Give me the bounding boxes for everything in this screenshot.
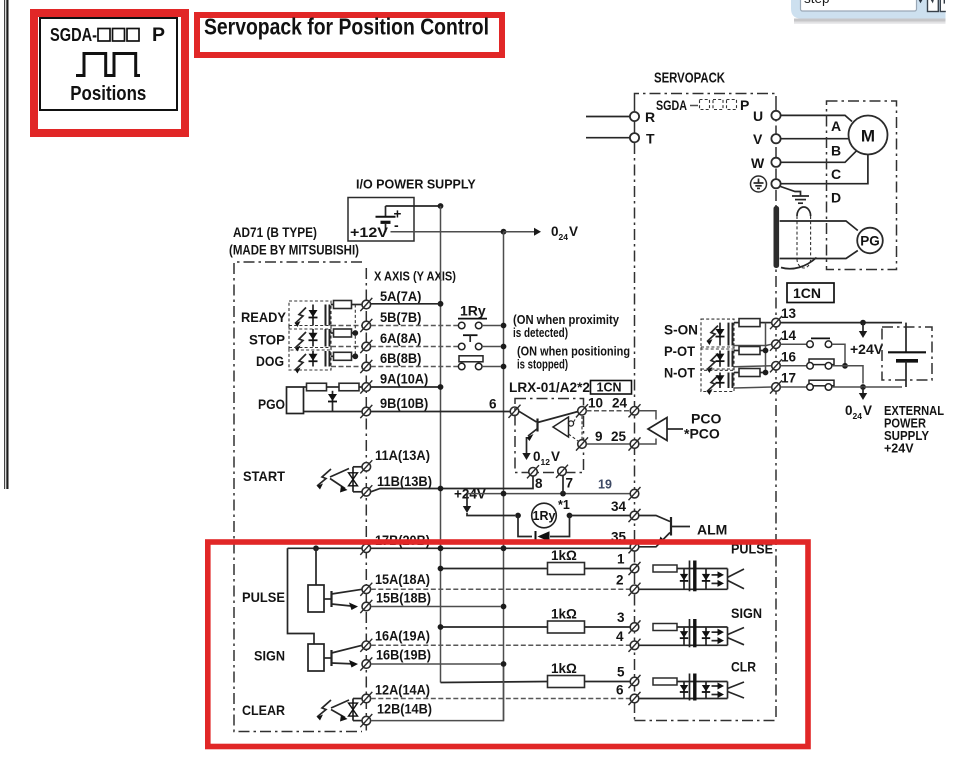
svg-text:X AXIS (Y AXIS): X AXIS (Y AXIS) xyxy=(374,270,456,284)
wire 16A to pin4 xyxy=(371,644,630,646)
toolbar shadow xyxy=(794,19,946,22)
svg-text:LRX-01/A2*2: LRX-01/A2*2 xyxy=(509,380,590,395)
svg-text:Positions: Positions xyxy=(70,83,146,105)
wire S-ON anode xyxy=(734,322,739,324)
svg-text:*1: *1 xyxy=(558,498,570,512)
svg-text:CLEAR: CLEAR xyxy=(242,702,285,718)
svg-text:25: 25 xyxy=(611,429,627,444)
svg-text:START: START xyxy=(243,468,285,484)
terminal T xyxy=(630,133,639,142)
wire N-OT anode xyxy=(734,372,739,374)
svg-text:+24V: +24V xyxy=(850,341,884,357)
svg-text:6B(8B): 6B(8B) xyxy=(380,351,421,366)
svg-text:SERVOPACK: SERVOPACK xyxy=(654,70,725,87)
svg-text:5A(7A): 5A(7A) xyxy=(380,289,421,304)
svg-text:9A(10A): 9A(10A) xyxy=(380,372,428,387)
svg-text:1kΩ: 1kΩ xyxy=(551,548,577,563)
wire V to motor phase B xyxy=(781,138,849,140)
terminal 16A xyxy=(360,639,372,652)
svg-text:T: T xyxy=(646,131,655,147)
svg-text:V: V xyxy=(753,131,763,147)
svg-text:0: 0 xyxy=(845,403,853,418)
terminal 1CN-17 xyxy=(770,380,782,393)
junction 1Ry left xyxy=(515,513,521,519)
wire P-OT cathode to 16 xyxy=(734,366,772,367)
wire R3 to pin3 xyxy=(585,626,631,628)
white page area right of toolbar xyxy=(946,0,968,26)
terminal 5B(7B) xyxy=(360,319,372,332)
combo box "step" xyxy=(801,0,917,11)
wire CLEAR bottom stub xyxy=(353,720,362,722)
svg-text:S-ON: S-ON xyxy=(664,322,698,338)
wire STOP cathode to 6A xyxy=(331,346,362,348)
wire supply to PULSE driver xyxy=(315,548,317,585)
wire DOG cathode to 6B xyxy=(331,366,362,368)
svg-text:16B(19B): 16B(19B) xyxy=(376,648,431,663)
junction rail STOP xyxy=(352,330,358,336)
switch positioning (6B row) xyxy=(371,356,501,370)
resistor S-ON xyxy=(739,319,760,327)
wire 12A to pin6 xyxy=(371,698,630,700)
CLEAR emitter lines xyxy=(331,700,349,722)
svg-text:is stopped): is stopped) xyxy=(517,358,568,372)
wire bus to R5 xyxy=(441,682,548,683)
wire 0V out xyxy=(391,231,504,233)
svg-text:24: 24 xyxy=(559,232,569,242)
wire PGO top xyxy=(304,386,307,388)
svg-text:R: R xyxy=(645,109,655,125)
earth ground symbol below PE xyxy=(781,187,810,204)
wire 15B to 0V bus xyxy=(371,606,501,608)
terminal 1CN-6 xyxy=(629,692,641,705)
wire to 0-24V arrow xyxy=(504,231,535,233)
junction 17B 0Vbus xyxy=(501,545,507,551)
svg-text:3: 3 xyxy=(617,610,625,625)
wire READY to 5A xyxy=(352,304,362,306)
resistor READY xyxy=(334,301,352,309)
wire 11B to LRX 8 xyxy=(371,476,533,492)
svg-text:PCO: PCO xyxy=(691,411,721,427)
svg-text:ALM: ALM xyxy=(697,522,727,538)
junction row3 bus xyxy=(438,624,444,630)
svg-text:SIGN: SIGN xyxy=(254,648,285,664)
opto-coupler DOG xyxy=(289,348,331,374)
junction 15B 0Vbus xyxy=(501,604,507,610)
1CN tag box (connector) xyxy=(787,283,834,303)
terminal LRX 8 xyxy=(527,465,539,478)
wire CLEAR top stub xyxy=(353,698,362,700)
cable shield bar xyxy=(774,206,780,268)
svg-text:M: M xyxy=(861,127,875,146)
junction 6B to 0V bus xyxy=(501,364,507,370)
wire DOG to rail xyxy=(352,355,356,357)
wire 0V vertical bus x=503 xyxy=(503,232,505,721)
svg-text:READY: READY xyxy=(241,309,287,325)
svg-text:13: 13 xyxy=(781,306,797,321)
svg-text:4: 4 xyxy=(616,629,624,644)
svg-text:11B(13B): 11B(13B) xyxy=(377,474,432,489)
wire DOG anode xyxy=(331,355,334,357)
junction +24V ext xyxy=(860,320,866,326)
svg-text:1CN: 1CN xyxy=(793,285,821,301)
terminal 17B(20B) xyxy=(360,542,372,555)
flyback diode loop xyxy=(518,516,570,543)
terminal V xyxy=(771,134,780,143)
arrow +24V ext xyxy=(862,323,864,331)
wire bus to R1 xyxy=(441,568,548,570)
terminal 1CN-2 xyxy=(629,583,641,596)
terminal 1CN-1 xyxy=(629,562,641,575)
svg-text:C: C xyxy=(831,166,841,182)
terminal U xyxy=(771,111,780,120)
resistor 1kOhm row3 xyxy=(548,621,585,633)
toolbar panel background xyxy=(791,0,946,19)
terminal 9B(10B) xyxy=(360,405,372,418)
svg-text:(ON when proximity: (ON when proximity xyxy=(513,313,619,327)
arrowhead +24V feed xyxy=(463,506,471,513)
wire READY cathode to 5B xyxy=(331,325,362,327)
junction +24V 0V-bus xyxy=(501,491,507,497)
wire N-OT cathode to 17 xyxy=(734,387,772,388)
resistor STOP xyxy=(334,329,352,337)
terminal 11B xyxy=(360,485,372,498)
svg-text:PULSE: PULSE xyxy=(242,589,285,605)
terminal R xyxy=(630,112,639,121)
resistor DOG xyxy=(334,352,352,360)
wire N-OT to rail xyxy=(760,372,766,374)
svg-text:(ON when positioning: (ON when positioning xyxy=(517,345,630,359)
svg-text:1: 1 xyxy=(617,552,625,567)
junction 17B +12bus xyxy=(438,545,444,551)
terminal 1CN-5 xyxy=(629,675,641,688)
svg-text:12B(14B): 12B(14B) xyxy=(377,702,432,717)
svg-text:5: 5 xyxy=(617,665,625,680)
svg-text:9: 9 xyxy=(595,429,603,444)
junction +12V bus top xyxy=(438,203,444,209)
wire 17B to pin 35 xyxy=(371,547,630,549)
svg-text:P: P xyxy=(152,24,165,46)
svg-text:(MADE BY MITSUBISHI): (MADE BY MITSUBISHI) xyxy=(229,243,359,258)
svg-text:16: 16 xyxy=(781,350,797,365)
wire 10 to 24 xyxy=(587,410,631,412)
svg-text:+12V: +12V xyxy=(350,224,389,240)
junction row1 bus xyxy=(438,566,444,572)
logo pulse waveform xyxy=(76,54,140,76)
svg-text:AD71 (B TYPE): AD71 (B TYPE) xyxy=(233,225,317,240)
arrowhead 0-24V ext xyxy=(859,393,867,400)
terminal W xyxy=(771,158,780,167)
svg-text:2: 2 xyxy=(616,573,624,588)
svg-text:34: 34 xyxy=(611,499,627,514)
svg-text:B: B xyxy=(831,143,841,159)
svg-text:1CN: 1CN xyxy=(597,381,622,395)
terminal LRX 9 xyxy=(576,437,588,450)
wire READY anode xyxy=(331,304,334,306)
svg-text:V: V xyxy=(863,403,872,418)
wire anode rail (servo inputs) xyxy=(765,323,767,373)
svg-text:1Ry: 1Ry xyxy=(533,509,556,523)
I/O power supply box xyxy=(348,198,414,242)
svg-text:V: V xyxy=(551,449,560,464)
svg-text:V: V xyxy=(569,224,578,239)
terminal 1CN-16 xyxy=(770,359,782,372)
svg-text:DOG: DOG xyxy=(256,353,284,369)
servopack enclosure outline xyxy=(635,94,777,721)
wire START bottom stub xyxy=(353,491,362,493)
svg-text:P-OT: P-OT xyxy=(664,343,695,359)
svg-text:CLR: CLR xyxy=(731,659,756,675)
svg-text:Servopack for Position Control: Servopack for Position Control xyxy=(204,14,489,40)
transistor LRX input xyxy=(519,411,578,441)
wire PG signal bottom xyxy=(780,251,858,259)
arrowhead 0-12V xyxy=(522,453,530,460)
wire 15A to pin2 xyxy=(371,588,630,590)
AD71 terminal strip line xyxy=(365,268,367,732)
svg-text:PG: PG xyxy=(860,234,880,249)
junction PULSE drv supply xyxy=(313,545,319,551)
svg-text:9B(10B): 9B(10B) xyxy=(380,396,428,411)
svg-text:6: 6 xyxy=(616,683,624,698)
wire P-OT to rail xyxy=(760,350,766,352)
junction rail DOG xyxy=(352,353,358,359)
terminal LRX 10 xyxy=(576,404,588,417)
switch P-OT (16) xyxy=(781,359,864,384)
resistor PGO 2 xyxy=(339,383,359,391)
wire to 1Ry coil xyxy=(467,513,515,516)
terminal 1CN-24 xyxy=(629,404,641,417)
wire STOP anode xyxy=(331,332,334,334)
opto-coupler P-OT xyxy=(701,347,734,373)
junction 5A to +12V bus xyxy=(438,301,444,307)
wire START top stub xyxy=(353,466,362,468)
battery +12V xyxy=(376,206,402,233)
terminal 9A(10A) xyxy=(360,380,372,393)
resistor PGO 1 xyxy=(307,383,327,391)
junction +24V pin7 xyxy=(560,491,566,497)
terminal 11A xyxy=(360,460,372,473)
switch proximity (6A row) xyxy=(371,335,501,350)
svg-text:*PCO: *PCO xyxy=(684,426,720,442)
wire S-ON to 13 xyxy=(760,322,772,324)
junction sw16-17 xyxy=(860,384,866,390)
svg-text:14: 14 xyxy=(781,328,797,343)
svg-text:W: W xyxy=(751,155,765,171)
switch S-ON (14) xyxy=(781,338,846,365)
svg-text:step: step xyxy=(804,0,830,6)
resistor 1kOhm row5 xyxy=(548,676,585,688)
junction sw14-16 xyxy=(842,363,848,369)
svg-text:12A(14A): 12A(14A) xyxy=(375,683,430,698)
wire PGO mid xyxy=(327,386,340,388)
resistor P-OT xyxy=(739,347,760,355)
svg-text:SGDA-: SGDA- xyxy=(50,24,97,45)
combo dropdown caret xyxy=(918,0,923,3)
photocoupler CLR xyxy=(640,674,745,701)
junction rail N-OT xyxy=(763,370,769,376)
terminal PE xyxy=(771,179,780,188)
terminal 5A(7A) xyxy=(360,298,372,311)
wire STOP to rail xyxy=(352,332,356,334)
1Ry underline xyxy=(458,318,487,320)
svg-text:15A(18A): 15A(18A) xyxy=(375,572,430,587)
motor M xyxy=(849,116,888,155)
line receiver triangle xyxy=(553,417,574,437)
photocoupler SIGN xyxy=(640,619,745,647)
svg-text:I/O POWER SUPPLY: I/O POWER SUPPLY xyxy=(356,178,476,192)
wires 24/25 to PCO receiver xyxy=(639,411,656,444)
wire W to motor phase C xyxy=(781,151,857,163)
bolt START xyxy=(317,469,331,490)
1CN tag box (LRX) xyxy=(591,381,632,395)
red box title xyxy=(197,15,502,55)
svg-text:15B(18B): 15B(18B) xyxy=(376,591,431,606)
terminal 6A(8A) xyxy=(360,340,372,353)
opto-coupler S-ON xyxy=(701,319,734,349)
svg-text:P: P xyxy=(740,97,749,113)
arrow 0-24V ext xyxy=(862,387,864,393)
diode PGO xyxy=(328,394,337,402)
opto-coupler READY xyxy=(289,301,331,329)
svg-text:is detected): is detected) xyxy=(513,326,568,340)
svg-text:24: 24 xyxy=(612,396,628,411)
svg-text:-: - xyxy=(394,217,399,233)
encoder PG xyxy=(857,228,883,254)
svg-text:PGO: PGO xyxy=(258,396,285,412)
relay contact 1Ry (5B row) xyxy=(371,322,501,329)
svg-text:1Ry: 1Ry xyxy=(460,303,486,319)
junction 6A to 0V bus xyxy=(501,344,507,350)
svg-text:U: U xyxy=(753,108,763,124)
wire PGO bottom to 9B xyxy=(304,411,362,413)
svg-text:+24V: +24V xyxy=(884,442,914,456)
diode PGO clamp xyxy=(332,391,334,412)
PGO source box xyxy=(287,387,304,414)
svg-text:8: 8 xyxy=(535,476,543,491)
diode pair START xyxy=(349,467,358,492)
red highlight box bottom section xyxy=(208,542,808,747)
svg-text:D: D xyxy=(831,190,841,206)
label 0 24 V (top) xyxy=(551,224,578,242)
red box SGDA logo xyxy=(34,13,185,133)
wire 16B to 0V bus xyxy=(371,663,501,665)
terminal LRX 7 xyxy=(556,465,568,478)
page left border line xyxy=(4,0,9,489)
ALM output transistor xyxy=(639,516,690,547)
wire P-OT anode xyxy=(734,350,739,352)
svg-text:16A(19A): 16A(19A) xyxy=(375,629,430,644)
wire U to motor phase A xyxy=(781,115,852,121)
svg-text:7: 7 xyxy=(566,476,574,491)
wire PGO to 9A xyxy=(359,386,362,388)
terminal 1CN-19 xyxy=(629,487,641,500)
bolt CLEAR xyxy=(317,700,331,721)
terminal 1CN-3 xyxy=(629,620,641,633)
terminal 1CN-4 xyxy=(629,639,641,652)
terminal 15A xyxy=(360,583,372,596)
svg-text:1kΩ: 1kΩ xyxy=(551,607,577,622)
terminal 12A xyxy=(360,692,372,705)
PCO line receiver triangle xyxy=(648,418,683,441)
arrow +24V feed xyxy=(466,494,468,506)
toolbar button 1 xyxy=(928,0,939,12)
toolbar button 2 (cut) xyxy=(940,0,949,12)
line driver SIGN xyxy=(308,644,362,671)
LRX module box xyxy=(515,399,584,473)
svg-text:N-OT: N-OT xyxy=(664,365,695,381)
svg-text:6: 6 xyxy=(489,397,497,412)
svg-text:STOP: STOP xyxy=(249,332,285,348)
terminal 6B(8B) xyxy=(360,360,372,373)
external battery box xyxy=(882,323,932,387)
svg-text:6A(8A): 6A(8A) xyxy=(380,331,421,346)
diode pair CLEAR xyxy=(349,699,358,721)
wire 9A to +12V bus xyxy=(371,386,441,388)
svg-text:12: 12 xyxy=(541,457,551,467)
resistor N-OT xyxy=(739,369,760,377)
START emitter lines xyxy=(330,469,349,493)
wire 17B left xyxy=(288,547,362,549)
motor enclosure box xyxy=(827,101,897,270)
svg-text:11A(13A): 11A(13A) xyxy=(375,448,430,463)
junction 1Ry right xyxy=(567,513,573,519)
svg-text:1kΩ: 1kΩ xyxy=(551,661,577,676)
switch N-OT (17) xyxy=(781,380,903,390)
opto-coupler N-OT xyxy=(701,369,734,395)
wire bus to R3 xyxy=(441,626,548,628)
label 0 12 V xyxy=(533,449,560,467)
wire +12V to bus xyxy=(386,205,441,207)
AD71 enclosure dashed xyxy=(234,262,362,732)
svg-text:0: 0 xyxy=(551,224,559,239)
wire common anode rail xyxy=(354,305,356,357)
terminal 1CN-25 xyxy=(629,437,641,450)
arrowhead +24V ext xyxy=(859,331,867,338)
wire 5A to +12V bus xyxy=(371,303,441,305)
terminal 12B xyxy=(360,714,372,727)
wire PG signal top xyxy=(780,221,858,231)
wire S-ON cathode to 14 xyxy=(734,344,772,345)
line driver PULSE xyxy=(308,585,362,612)
relay coil 1Ry xyxy=(532,503,557,528)
wire R5 to pin5 xyxy=(585,681,631,683)
junction rail P-OT xyxy=(763,348,769,354)
wire R input xyxy=(586,116,630,118)
svg-text:10: 10 xyxy=(588,396,603,411)
wire +12V vertical bus x=440 xyxy=(440,206,442,683)
wire R1 to pin1 xyxy=(585,568,631,570)
svg-text:17: 17 xyxy=(781,371,796,386)
dashed links to 10/9 xyxy=(569,414,583,441)
junction 11B bus xyxy=(438,486,444,492)
photocoupler PULSE xyxy=(640,561,745,592)
terminal 16B xyxy=(360,657,372,670)
terminal LRX 6 xyxy=(509,405,521,418)
terminal 1CN-14 xyxy=(770,338,782,351)
svg-text:19: 19 xyxy=(598,478,612,492)
wire 1Ry to pin 34 xyxy=(570,515,631,517)
junction 9A bus xyxy=(438,384,444,390)
junction 0V bus top xyxy=(501,229,507,235)
wire T input xyxy=(586,137,630,139)
svg-text:SIGN: SIGN xyxy=(731,605,762,621)
wire D motor frame ground xyxy=(781,155,868,184)
terminal 15B xyxy=(360,600,372,613)
wire 9B to LRX input 6 xyxy=(371,411,510,413)
junction 5B to 0V bus xyxy=(501,323,507,329)
terminal 1CN-13 xyxy=(770,316,782,329)
resistor 1kOhm row1 xyxy=(548,563,585,575)
cable tail curve xyxy=(781,258,817,269)
